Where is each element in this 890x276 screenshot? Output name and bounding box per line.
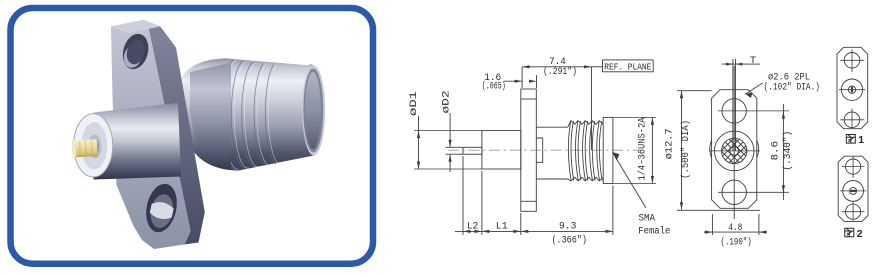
dimension T (722, 63, 747, 65)
dimension 4.8 width (711, 214, 713, 235)
figure 1 bottom hole (844, 112, 860, 128)
svg-text:L1: L1 (496, 222, 508, 233)
side view centerline (448, 149, 641, 151)
figure 2 label (845, 228, 854, 237)
blue rounded border frame (11, 8, 374, 264)
front view bottom mounting hole (722, 180, 746, 204)
front view interface circles with hatch (714, 131, 754, 171)
svg-text:(.102″ DIA.): (.102″ DIA.) (764, 81, 821, 93)
3D barrel end face (74, 114, 113, 177)
dimension phi2.6 2PL leader (745, 83, 762, 94)
3D flange bottom hole (142, 181, 181, 235)
figure 1 top hole (844, 53, 860, 69)
front view side bumps (710, 140, 712, 158)
ref plane line (591, 67, 593, 150)
SMA Female label with leader (612, 152, 646, 208)
dimension phi12.7 (681, 91, 683, 210)
svg-text:REF. PLANE: REF. PLANE (604, 62, 651, 73)
svg-text:øD2: øD2 (442, 91, 453, 114)
svg-text:ø12.7: ø12.7 (665, 128, 676, 159)
3D flange top hole (119, 31, 152, 72)
svg-text:(.190″): (.190″) (721, 237, 752, 249)
dimension 8.6 hole spacing (782, 104, 784, 200)
3D rear body between flange and nut (190, 63, 231, 171)
svg-text:(.500″ DIA): (.500″ DIA) (680, 120, 692, 179)
svg-text:L2: L2 (467, 222, 479, 233)
svg-text:1: 1 (858, 134, 864, 146)
svg-text:SMA: SMA (639, 213, 656, 224)
side view boss step (536, 138, 542, 162)
svg-text:T: T (750, 56, 756, 67)
figure 2 bottom hole (846, 204, 861, 219)
svg-text:8.6: 8.6 (771, 141, 782, 161)
3D flange plate side face (143, 20, 205, 245)
figure 2 flange outline (838, 156, 868, 221)
front view solder tab lines (732, 59, 734, 151)
side view center pin (463, 147, 482, 154)
figure 2 center contact (843, 181, 864, 202)
REF. PLANE box label (592, 66, 603, 68)
3D nut end cap (302, 66, 325, 156)
figure 2 top hole (846, 159, 861, 174)
figure 1 label (846, 135, 855, 144)
svg-text:9.3: 9.3 (559, 221, 576, 232)
bottom dimension chain L2 L1 9.3 (462, 156, 464, 235)
side view body D1 (482, 131, 521, 169)
front view centerlines (733, 66, 735, 219)
svg-text:Female: Female (638, 225, 670, 237)
3D flange plate front face (111, 20, 191, 249)
svg-text:2: 2 (857, 228, 863, 240)
svg-text:(.340″): (.340″) (782, 131, 794, 171)
figure 1 flange outline (837, 47, 868, 128)
side view threads (568, 121, 604, 128)
3D center pin (gold) (72, 139, 98, 157)
front view flange outline (712, 90, 757, 209)
svg-text:(.366″): (.366″) (551, 235, 587, 247)
svg-text:4.8: 4.8 (728, 223, 742, 234)
svg-text:(.065): (.065) (482, 81, 506, 93)
front view top mounting hole (722, 99, 746, 123)
3D coupling nut (rear right cylinder) (181, 58, 323, 170)
3D front barrel cylinder (94, 103, 182, 180)
side view flange (521, 89, 537, 211)
3D nut thread grooves (221, 60, 236, 169)
svg-text:(.291″): (.291″) (543, 66, 577, 78)
3D flange top face (111, 20, 160, 33)
svg-text:1/4-36UNS-2A: 1/4-36UNS-2A (637, 118, 649, 181)
side view nut end cap (603, 117, 613, 183)
figure 1 center contact (841, 79, 862, 100)
side view nut rear section (536, 127, 567, 179)
dimension 7.4 REF PLANE (522, 66, 591, 68)
svg-text:øD1: øD1 (409, 91, 420, 116)
